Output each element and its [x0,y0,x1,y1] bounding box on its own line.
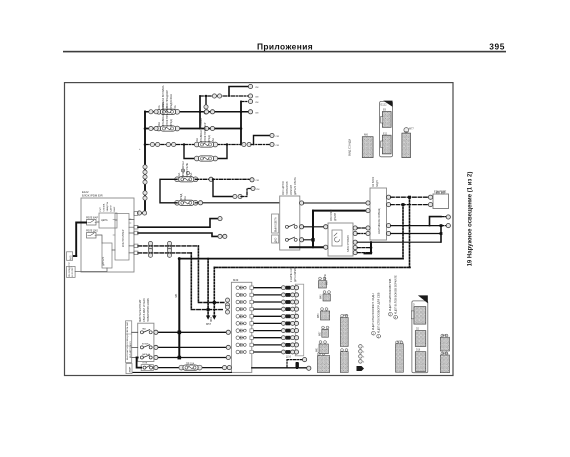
svg-text:Е28 РЕЛЕ: Е28 РЕЛЕ [434,190,446,194]
svg-text:15A: 15A [211,138,215,143]
op unit headlamp switch label box [126,321,132,363]
note texts group A [371,292,380,338]
node junction drop B crossing [207,308,210,311]
svg-text:М49: М49 [233,278,239,282]
connector pair CAN L a [148,248,152,257]
fuse F3 row3 [194,142,217,147]
connector pair CAN H a [148,241,152,250]
svg-text:ВИД СЗАДИ: ВИД СЗАДИ [348,139,352,156]
wire rear unit dashed to relay box a [391,196,429,198]
label IPDM designator [82,190,103,197]
svg-text:ЗАДН: ЗАДН [376,180,379,187]
label above daytime unit [330,209,337,221]
svg-text:БЛОК IPDM E/R: БЛОК IPDM E/R [82,194,103,198]
svg-text:ДХО: ДХО [276,237,278,242]
svg-text:D2 БЛОК: D2 БЛОК [372,176,375,187]
pin stubs right of IPDM [129,220,134,253]
connector single row1 after junction [204,110,208,114]
wire thick top to rear-lamp unit [313,210,370,212]
wire y96 dash-dot [200,95,249,97]
labels above inner control unit [100,202,116,212]
wire middle out solid long [357,241,440,243]
node junctions on riser [240,111,243,114]
fuse F2 row2 [156,126,179,131]
svg-text:СМ: СМ [276,145,280,147]
label tiny above bus notes [290,267,327,282]
svg-text:КЦЕП СТЕКЛООБОГР ДЛЯ СЕВ: КЦЕП СТЕКЛООБОГР ДЛЯ СЕВ [376,292,380,333]
wire bus bottom stub to IPDM pin [139,212,146,214]
svg-text:БЛОК РЕЛЕ: БЛОК РЕЛЕ [185,163,189,178]
node end circle row 368 [307,366,311,370]
svg-text:ПЛАВКАЯ ВСТАВКА: ПЛАВКАЯ ВСТАВКА [161,102,165,127]
svg-text:ПИТ: ПИТ [100,206,102,211]
wire dotted vertical right A [402,205,404,259]
svg-text:Ч/Б: Ч/Б [174,294,178,298]
pointer hand symbol [357,366,365,371]
svg-text:D16: D16 [416,350,421,352]
svg-text:КЦЕП СТЕКЛООЧИСТ. ЗАДН: КЦЕП СТЕКЛООЧИСТ. ЗАДН [371,294,375,330]
node circle low beam [218,217,222,221]
fuse F1 row1 [156,109,179,114]
svg-text:D108: D108 [442,353,448,355]
svg-text:КЦЕП В ЛЕВ БОКОВ ЗЕРКАЛЕ: КЦЕП В ЛЕВ БОКОВ ЗЕРКАЛЕ [393,275,397,314]
svg-text:ДАТА ЛИНИЯ: ДАТА ЛИНИЯ [294,267,297,282]
wire rear unit dashed to relay box b [391,204,429,206]
diagram frame [65,83,454,376]
wire top out to rear unit [304,202,370,204]
svg-text:10A: 10A [177,173,181,178]
svg-text:СМ: СМ [256,189,260,191]
wire rear unit solid right b [391,233,441,235]
wire vertical stub x206 [205,96,207,106]
node end circle row1 [248,110,252,114]
node trunk junction at row 357 [178,356,182,360]
node pin circles rear unit right [387,195,391,199]
wire BCM lower-left pin row 347 [158,346,227,348]
wire middle to rear unit dashed a [357,227,368,229]
node junction dotted B [408,196,411,199]
svg-text:М77: М77 [397,341,402,344]
node end circle step upper [446,215,450,219]
connector grid E-B [382,135,391,154]
svg-text:ДАТЧИК СВЕТА: ДАТЧИК СВЕТА [294,177,297,195]
node circle high beam [218,234,222,238]
wire CAN bus dash-dot lower [214,266,410,268]
svg-text:1: 1 [363,347,365,349]
node BCM left pin pairs CAN [225,298,229,307]
svg-text:Е11: Е11 [383,132,388,135]
svg-text:ПР 10A: ПР 10A [186,363,195,366]
connector pair CAN L b [167,248,171,257]
node end circle F5 [250,178,254,182]
svg-text:10A: 10A [195,138,199,143]
wire dotted vertical right B [409,197,411,267]
ground arrow A [206,316,210,320]
node row4 taps [183,143,185,145]
switch SW1 [140,330,152,334]
wire step to y188.5 [241,189,251,197]
wire BCM bottom-right step dash-dot [287,360,303,368]
black corner flag [383,101,392,107]
connector pair vertical x206 [204,105,208,114]
connector grid E-A [382,112,391,128]
node junction row2 on bus [144,127,147,130]
wire IPDM out CAN H dashed [138,245,198,247]
node junction x200 row1 [199,111,202,114]
node end circle row3b [270,142,274,146]
wire dotted ground drop B [213,267,215,316]
connector grid c1b [323,294,330,301]
wire thick bottom into middle box [290,246,326,248]
connector view box E [380,101,393,156]
svg-text:M28 ПЕРЕКЛЮЧАТ: M28 ПЕРЕКЛЮЧАТ [139,299,142,322]
wire BCM lower-left pin row 332 [158,331,227,333]
svg-text:ПРЕД: ПРЕД [207,135,211,142]
node junction x206 y96 [205,95,207,97]
connector grid c1f tall [317,356,329,373]
svg-text:М49: М49 [321,294,323,299]
wire row2 feed [145,102,241,145]
node end circle step [303,358,307,362]
end circles on collector [294,286,298,290]
svg-text:ПРЕД: ПРЕД [169,119,173,126]
node circle F5 out [209,177,213,181]
svg-text:М50: М50 [318,313,320,318]
svg-text:М61: М61 [317,347,319,352]
node pin circles switch right [154,330,158,334]
connector grid c6b [440,355,449,373]
switch SW3 [140,355,152,359]
svg-text:КОМБИН: КОМБИН [290,184,293,195]
svg-text:СМ: СМ [255,102,259,104]
switch S2 inside [285,237,297,241]
pin squares M49 [250,286,253,289]
wire thick right vertical link [365,242,372,253]
connector fuse symbols rows [281,286,294,290]
label circles for grids [318,277,448,355]
label texts above fuse row1 [139,85,279,201]
wire dashed into BCM pin upper [198,302,224,304]
node junction right link [370,246,373,249]
box inner CPU tall [115,214,129,261]
svg-text:Приложения: Приложения [257,42,313,52]
node junction branch x213 [212,178,214,180]
op unit IPDM E/R box [81,198,134,272]
wire thick center vertical [312,211,314,248]
wire IPDM out low beam [138,219,218,228]
fuse F6 mid lower [175,200,198,205]
node end circles at relay box [428,195,432,199]
wire F5 right dash-dot [196,178,251,180]
box A page link [67,252,73,260]
wire step B y101.5 [241,101,249,103]
wires from BCM rows to lamp connectors [252,288,283,352]
wire BCM bottom-right out row 368 [252,367,307,369]
svg-text:10A: 10A [157,122,161,127]
wire row3 dash-dot [145,144,244,146]
svg-text:ЦЕПИ: ЦЕПИ [111,205,113,212]
wire main battery bus [144,112,146,214]
svg-text:ВЫКЛ НАРУЖН ОСВЕЩ И СВЕТА ФАР: ВЫКЛ НАРУЖН ОСВЕЩ И СВЕТА ФАР [126,321,129,360]
svg-text:ВКЛ АВТО ВЫКЛ: ВКЛ АВТО ВЫКЛ [129,341,132,358]
connector grid D-B [415,331,426,347]
svg-text:ДНЕВН: ДНЕВН [334,212,337,221]
svg-text:15A: 15A [189,173,193,178]
connector grid c2b [340,352,348,373]
label above rear unit [372,176,379,187]
connector single row2 [204,126,208,130]
wire BCM lower-left pin row 357 [158,357,227,359]
svg-text:15A: 15A [173,105,177,110]
connector grid with key [402,133,411,158]
connector grid c1d [322,329,329,337]
label cells combination meter left [272,214,279,233]
node pin circle S1 out [300,225,304,229]
connector grid c1a [318,281,326,288]
svg-text:Д 16: Д 16 [286,356,292,359]
svg-text:ПРЕДОХРАН: ПРЕДОХРАН [169,94,173,110]
svg-text:РЕЛЕ ДХО: РЕЛЕ ДХО [86,230,98,233]
wire IPDM out CAN L dashed [138,252,191,254]
svg-text:К ШИНЕ CAN: К ШИНЕ CAN [290,267,293,282]
svg-text:КЦЕП ЛАМП БОКОВ ПОВ: КЦЕП ЛАМП БОКОВ ПОВ [388,278,392,311]
svg-text:2: 2 [363,352,365,354]
svg-text:СМ: СМ [256,180,260,182]
fuse F7 row368 [179,365,202,370]
wire F6 right long to combination switch [196,202,280,204]
wire top step A [229,87,249,97]
node junction drop A crossing [213,301,216,304]
wire middle out dash c [357,247,371,249]
svg-text:М57: М57 [319,331,321,336]
connector grid c2a tall [340,318,348,347]
node junction dotted A [402,203,405,206]
svg-text:+: + [139,148,141,151]
op unit rear combination lamp box [370,188,387,240]
svg-text:M61: M61 [209,316,213,322]
svg-text:D: D [413,303,415,306]
svg-text:СМ: СМ [255,87,259,89]
pin ticks tall box [113,219,131,235]
svg-text:ПРИБОРОВ: ПРИБОРОВ [286,181,289,195]
svg-text:М6: М6 [364,133,368,137]
svg-text:M34 БЛОК: M34 БЛОК [330,209,333,221]
page header rule [63,51,506,53]
node junction row3 on bus [144,143,147,146]
op unit headlamp switch box [138,323,154,361]
op unit flasher box [141,365,153,371]
wire relay1 to inner box [97,220,117,250]
wire F5-F6 left link [160,179,177,203]
wire step connector lower tail [441,225,447,227]
svg-text:НАРУЖНОЕ ОСВЕЩ: НАРУЖНОЕ ОСВЕЩ [377,208,381,234]
fuse F5 mid [175,177,198,182]
svg-text:СМ: СМ [276,136,280,138]
wire row1 tail to circle [241,111,249,113]
node pin circles middle box left [324,225,328,229]
wire dotted ground drop A [207,259,209,317]
svg-text:395: 395 [489,42,505,52]
connector grid c1c [321,311,330,320]
connector pair row3 left [150,142,159,146]
node pin circle flasher [154,366,158,370]
svg-text:АКБ: АКБ [70,255,73,260]
svg-text:БЛОК УПРАВЛ: БЛОК УПРАВЛ [347,235,350,252]
svg-text:ВЫХ: ВЫХ [114,206,116,211]
terminal circles column [359,345,365,364]
wire dashed into BCM pin lower [191,309,224,311]
svg-text:КОНТРОЛЛЕР: КОНТРОЛЛЕР [121,229,125,247]
connector view box D [412,301,428,373]
wire from box B along box bottom [75,268,107,272]
connector pair row1 [149,110,158,114]
wire rear unit solid right a [391,225,441,227]
wire thick battery feed into relay1 [76,223,86,257]
svg-text:ЦЕПЬ: ЦЕПЬ [101,219,108,222]
collector bus box right of rows [295,284,303,356]
svg-text:10A: 10A [183,196,187,201]
svg-text:СХЕМА: СХЕМА [103,203,106,211]
svg-text:АВАР: АВАР [129,366,132,372]
svg-text:ВЫКЛ СВЕТА: ВЫКЛ СВЕТА [275,217,278,232]
wire middle out dash d [357,252,371,254]
wire branch down to y196.5 [213,179,234,196]
box inner symbol [332,230,342,246]
ground arrow B [212,316,216,320]
svg-text:3: 3 [363,357,365,359]
op unit BCM box M49 [231,282,251,372]
wire thick left link [137,358,142,368]
wire row3 step up to circle [254,136,271,145]
op unit daytime light unit box [328,223,353,256]
svg-text:М28: М28 [343,314,348,317]
svg-text:4: 4 [363,362,365,364]
lamp rows inside BCM [236,286,246,290]
row labels [142,328,150,365]
node end circle row3a [270,133,274,137]
wire ignition feed row 368 with fuse [155,367,223,369]
node end circle y96 [248,94,252,98]
switch SW2 [140,345,152,349]
svg-text:БЛОК ПРЕДОХР: БЛОК ПРЕДОХР [165,106,169,126]
svg-text:ДАТЧИК: ДАТЧИК [102,256,105,266]
svg-text:M24 ЩИТОК: M24 ЩИТОК [282,181,285,195]
wire dotted vertical from CAN L [190,253,192,310]
wire CAN bus dashed main [179,258,403,260]
box inner bottom unit [102,243,112,268]
svg-text:ГАБ: ГАБ [142,328,146,331]
svg-text:10A: 10A [157,105,161,110]
svg-text:СМ: СМ [255,112,259,114]
connector grid M6 [362,137,373,158]
connector grid c4 tall [396,344,404,372]
node trunk top junction [178,257,181,260]
connector flags on bus [143,165,147,174]
connector pair y196.5 [233,194,242,198]
svg-text:ШИНА: ШИНА [324,274,327,281]
wire middle to rear unit dash-dot b [357,233,368,235]
wire bottom long row 372 [133,371,231,373]
node trunk junction at row 332 [178,331,182,335]
node pin circles middle box right [353,226,357,230]
svg-text:Е122: Е122 [381,103,388,107]
label above combination meter [282,177,297,195]
connector pair row2 [149,126,158,130]
svg-text:ПЛАВКАЯ ВСТАВКА: ПЛАВКАЯ ВСТАВКА [199,118,203,143]
node end circle step lower [446,224,450,228]
svg-text:СМ.СЛЕД.СТР: СМ.СЛЕД.СТР [69,262,71,277]
op unit combination meter box [280,196,300,250]
wire thick trunk down to headlamp switch rows [178,259,180,358]
switch S1 inside [285,224,297,228]
node pin circles rear unit left [366,201,370,205]
node circle F6 out [198,201,202,205]
node end circle step B [248,99,252,103]
wire S2 to thick trunk [304,239,313,241]
svg-text:D107: D107 [442,335,448,337]
black corner flag D [418,295,428,303]
node junction S2-trunk [311,238,314,241]
label flasher left [126,364,132,374]
wire dotted vertical from CAN H [197,246,199,303]
fuse F4 row4 [194,156,217,161]
connector grid c1e [319,344,328,354]
wire row1 feed [145,111,249,113]
node end circle y188.5 [251,186,255,190]
wire row4 bypass [184,145,227,159]
connector pair y96 [212,94,221,98]
wire step connector upper [430,217,442,226]
relay K2 headlamp high [87,233,97,239]
svg-text:ЗАЩИТЫ: ЗАЩИТЫ [106,202,109,212]
svg-text:РЕЛЕ ФАР: РЕЛЕ ФАР [86,217,98,220]
svg-text:19 Наружное освещение (1 из 2): 19 Наружное освещение (1 из 2) [468,172,474,267]
node pin circle top out [300,201,304,205]
connector grid D-A [414,307,426,325]
wire S1 to middle box [304,226,326,228]
svg-text:16 30 ПИТ: 16 30 ПИТ [72,266,74,277]
connector grid c6a [440,337,449,351]
box B page link [67,266,76,277]
svg-text:ПРЕД: ПРЕД [179,193,183,200]
node junction bcm out [296,362,299,368]
wire IPDM out high beam [138,233,218,236]
wire feed from label box A [73,255,77,257]
wire row3 straight tail [251,144,270,146]
relay K1 headlamp low [87,220,97,226]
wire vertical riser x200 [199,96,201,129]
svg-text:ПРЕДОХРАН: ПРЕДОХРАН [181,161,185,177]
label above headlamp switch [139,298,150,322]
svg-text:СВЕТА ФАР И УКАЗ: СВЕТА ФАР И УКАЗ [143,298,146,322]
svg-text:БЛОК ПРЕДОХР: БЛОК ПРЕДОХР [203,122,207,142]
connector grid D-C [415,352,426,372]
box inner control unit [99,213,117,228]
connector pair row3 right [242,142,251,146]
svg-text:М77: М77 [409,128,414,131]
op unit relay box right [433,194,449,209]
connector pair row3 mid [166,142,175,146]
svg-text:СМ: СМ [255,97,259,99]
note texts group B [388,275,397,319]
svg-text:ПОВОРОТОВ КОМБ: ПОВОРОТОВ КОМБ [147,298,150,322]
node pin circle S2 out [300,238,304,242]
node end circle top A [248,84,252,88]
connector pair CAN H b [167,241,171,250]
connector pair IPDM top pin [137,211,146,215]
